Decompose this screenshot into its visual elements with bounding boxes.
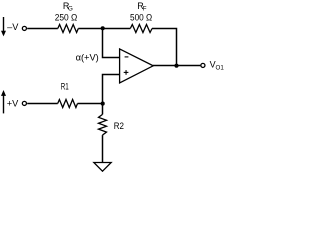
ground [94,163,111,172]
wire RF to output node [152,29,177,66]
resistor RF [130,25,152,33]
wire RG to node A [78,28,102,30]
svg-text:R2: R2 [114,121,124,131]
wire node A to inverting input [103,29,120,58]
output node junction [174,64,178,68]
svg-text:250 Ω: 250 Ω [55,13,78,24]
wire +V terminal to R1 [27,103,58,105]
wire noninverting input to node B [103,75,120,104]
supply arrow +V [1,90,6,113]
resistor R2 [99,114,107,135]
terminal +V [22,101,26,105]
svg-text:+V: +V [7,98,19,108]
wire R2 to ground [102,135,104,162]
resistor R1 [58,100,78,108]
wire node B to R2 [102,104,104,115]
node A junction [101,26,105,30]
wire node A to RF [103,28,131,30]
svg-text:α(+V): α(+V) [76,52,99,63]
wire op-amp output to terminal [153,65,200,67]
resistor RG [58,25,79,33]
svg-text:–V: –V [7,22,19,32]
node B junction [101,102,105,106]
op-amp U1 [120,49,154,83]
supply arrow -V [1,17,6,36]
svg-text:500 Ω: 500 Ω [130,13,152,24]
svg-text:R1: R1 [61,82,69,92]
terminal -V [22,26,26,30]
terminal VO1 [201,63,205,67]
wire -V terminal to RG [27,28,58,30]
wire R1 to node B [78,103,103,105]
